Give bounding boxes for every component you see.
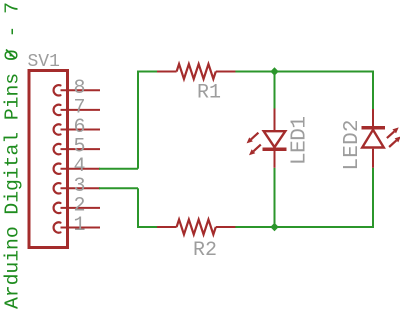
net label: Arduino Digital Pins 0 - 7 [1,2,23,309]
LED2 (cathode up) [362,109,400,168]
wire junction A down to LED1 [274,72,276,110]
svg-text:R2: R2 [193,239,217,262]
pin 5 [54,144,100,154]
wire vertical up to R1 row [137,72,139,169]
wire pin4 horizontal [99,168,138,170]
wire to R2 left lead [137,226,157,228]
wire pin3 horizontal [99,187,138,189]
pin 3 [54,183,100,193]
svg-text:R1: R1 [197,82,221,105]
pin 6 [54,124,100,134]
connector SV1 body [29,71,68,248]
pin 8 [54,85,100,95]
junction node A [270,67,278,75]
wire to R1 left lead [137,71,157,73]
wire LED2 bottom up [372,168,374,228]
pin 2 [54,203,100,213]
svg-text:SV1: SV1 [28,52,60,72]
wire LED1 bottom to junction B [274,168,276,227]
svg-text:LED2: LED2 [341,120,364,171]
wire vertical down to R2 row [137,188,139,227]
junction node B [270,223,278,231]
pin 7 [54,105,100,115]
pin 1 [54,222,100,232]
resistor R1 [157,64,235,79]
wire down to LED2 top [372,71,374,110]
svg-text:1: 1 [74,214,86,237]
resistor R2 [157,220,235,235]
svg-text:Arduino Digital Pins 0 - 7: Arduino Digital Pins 0 - 7 [1,2,23,309]
LED1 (cathode down) [247,109,287,168]
svg-text:LED1: LED1 [289,116,312,165]
wire R2 right to LED2 column [235,226,373,228]
wire R1 right to LED2 column [235,71,373,73]
pin 4 [54,164,100,174]
